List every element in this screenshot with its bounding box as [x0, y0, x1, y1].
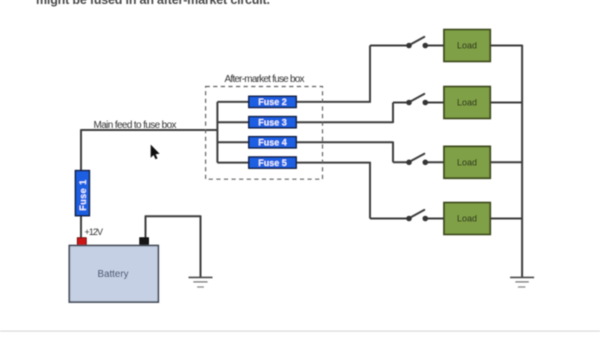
svg-text:Fuse 4: Fuse 4 [258, 138, 287, 148]
svg-text:Fuse 2: Fuse 2 [258, 97, 287, 107]
svg-text:+12V: +12V [85, 227, 104, 237]
svg-text:Load: Load [457, 98, 477, 108]
svg-text:After-market fuse box: After-market fuse box [225, 74, 305, 85]
svg-text:Fuse 5: Fuse 5 [258, 158, 287, 168]
svg-text:Load: Load [457, 214, 477, 224]
svg-text:Load: Load [457, 41, 477, 51]
svg-text:Battery: Battery [97, 269, 128, 280]
svg-text:Load: Load [457, 157, 477, 167]
svg-text:Fuse 3: Fuse 3 [258, 117, 287, 127]
svg-text:Main feed to fuse box: Main feed to fuse box [94, 120, 177, 131]
svg-text:Fuse 1: Fuse 1 [78, 180, 88, 211]
svg-text:might be fused in an after-mar: might be fused in an after-market circui… [36, 0, 270, 7]
